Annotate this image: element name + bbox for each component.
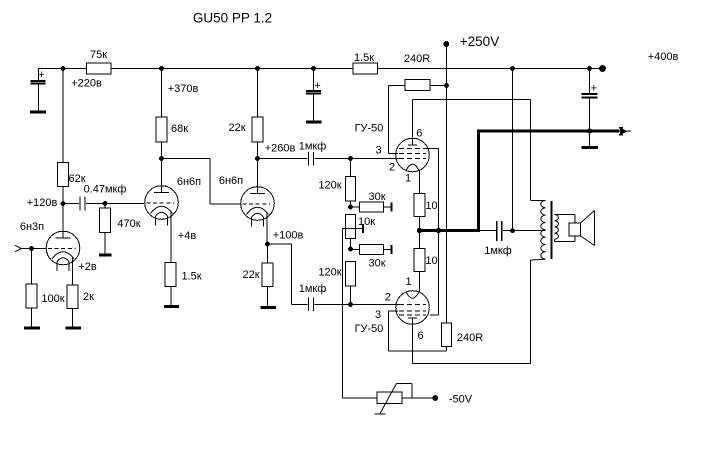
wire C7 to ground (589, 131, 591, 146)
wire between 10-ohm resistors (419, 217, 421, 249)
wire B+ rail (38, 68, 602, 70)
pentode V5 ГУ-50 (bottom, inverted) (396, 291, 430, 325)
wire cathode V4 (419, 170, 421, 193)
resistor R13 10k (trimmer) (346, 215, 356, 250)
wire cathode V1 (71, 266, 73, 285)
pentode V4 ГУ-50 (top) (396, 138, 430, 172)
svg-text:1: 1 (405, 173, 411, 185)
svg-text:+4в: +4в (178, 230, 197, 242)
svg-text:120к: 120к (318, 180, 341, 192)
node J (top grid node) (348, 156, 353, 161)
resistor R2 1.5k (353, 63, 378, 74)
resistor R11 120k (346, 159, 356, 208)
svg-text:6: 6 (417, 330, 423, 342)
ground (under 2k) (66, 326, 82, 329)
svg-text:GU50 PP 1.2: GU50 PP 1.2 (193, 11, 272, 26)
wire bias feed (wiper to varistor) (343, 229, 378, 399)
ground (under C1) (30, 110, 46, 113)
wire plate V5 to OPT primary bottom (413, 259, 546, 363)
node A (rail / 62k junction) (61, 66, 66, 71)
resistor R5 100k (26, 249, 37, 327)
wire cathode V3 (266, 222, 269, 264)
svg-text:6н6п: 6н6п (219, 175, 243, 187)
svg-text:3: 3 (375, 145, 381, 157)
capacitor C4 1мкф (top coupling) (258, 152, 351, 166)
svg-text:10к: 10к (358, 216, 375, 228)
capacitor C7 (output electrolytic) (582, 69, 598, 130)
svg-text:+370в: +370в (168, 83, 199, 95)
node M (bottom grid node) (348, 302, 353, 307)
svg-text:+120в: +120в (27, 197, 58, 209)
resistor R4 470k (100, 204, 111, 254)
wire secondary bottom to speaker (555, 236, 576, 242)
svg-text:22к: 22к (228, 122, 245, 134)
node F (input / 100k junction) (29, 246, 34, 251)
svg-text:30к: 30к (368, 191, 385, 203)
svg-text:6: 6 (416, 128, 422, 140)
svg-text:100к: 100к (41, 293, 64, 305)
node G (68k / plate V2 junction) (159, 156, 164, 161)
ground (under 1.5k) (164, 305, 179, 308)
svg-text:+400в: +400в (648, 51, 679, 63)
svg-text:+2в: +2в (78, 261, 97, 273)
node +400в terminal (599, 65, 606, 72)
resistor R14 30k (bottom) (351, 245, 392, 255)
node +250V terminal (443, 41, 449, 47)
svg-text:22к: 22к (242, 269, 259, 281)
input arrow (15, 245, 21, 251)
svg-text:240R: 240R (457, 332, 483, 344)
svg-text:+250V: +250V (460, 34, 499, 49)
wire cathode V5 (419, 272, 421, 292)
resistor R8 1.5k (165, 263, 176, 306)
capacitor C2 (electrolytic on rail) (306, 69, 321, 121)
wire R16 to +250V line (430, 85, 447, 87)
svg-text:10: 10 (425, 200, 437, 212)
wire plate V4 to OPT primary top (413, 100, 546, 201)
node C (rail / 22k junction) (255, 66, 260, 71)
svg-text:+: + (38, 69, 44, 81)
svg-text:+: + (591, 83, 597, 95)
resistor R12 30k (top) (351, 202, 392, 212)
resistor R9 22k (252, 69, 263, 159)
resistor R10 22k (cathode) (262, 263, 273, 306)
svg-text:-50V: -50V (449, 394, 473, 406)
ground (under cathode 22k) (261, 306, 277, 309)
wire 62k branch (62, 69, 64, 204)
wire suppressor V4 to common (426, 149, 439, 315)
wire plate V2 (161, 159, 163, 186)
node H (22k / plate V3 / C4 junction) (255, 156, 260, 161)
node L (10k / 30k / 120k junction) (348, 247, 353, 252)
resistor R16 240R (top) (405, 80, 430, 91)
svg-text:ГУ-50: ГУ-50 (355, 323, 384, 335)
svg-text:+260в: +260в (265, 143, 296, 155)
wire rail to center tap (512, 69, 514, 231)
node E (470k junction) (103, 201, 108, 206)
svg-text:2: 2 (389, 162, 395, 174)
svg-text:68к: 68к (171, 123, 188, 135)
wire cathode to lower coupling cap (268, 244, 308, 305)
resistor R19 240R (bottom) (442, 323, 452, 347)
wire cathode V2 (170, 221, 172, 263)
svg-text:0.47мкф: 0.47мкф (84, 184, 127, 196)
wire secondary top to speaker (555, 215, 576, 224)
node O (10-ohm midpoint) (417, 228, 422, 233)
node Q (center tap junction) (510, 228, 515, 233)
transformer T1 primary (541, 201, 546, 260)
arrow (common output) (619, 127, 631, 135)
svg-text:3: 3 (375, 309, 381, 321)
resistor R15 120k (346, 262, 356, 305)
svg-text:1мкф: 1мкф (299, 141, 327, 153)
wire plate V3 (257, 159, 259, 188)
svg-text:10: 10 (425, 255, 437, 267)
svg-text:+100в: +100в (273, 230, 304, 242)
varistor RU1 (375, 384, 433, 415)
wire grid V1 to first stage (105, 203, 144, 205)
node I (+100в cathode junction) (265, 242, 270, 247)
ground (under 470k) (99, 253, 112, 256)
svg-text:ГУ-50: ГУ-50 (355, 123, 384, 135)
svg-text:2: 2 (385, 292, 391, 304)
transformer T1 core (551, 201, 553, 259)
svg-text:1: 1 (405, 276, 411, 288)
wire screen V5 (240R feed) (389, 311, 447, 351)
node P (suppressor bus junction) (436, 228, 441, 233)
wiper of R13 (343, 224, 364, 233)
svg-text:75к: 75к (90, 49, 107, 61)
wire center tap (513, 230, 546, 232)
wire input (21, 248, 46, 250)
transformer T1 secondary (555, 215, 559, 240)
node K (120k / 30k / 10k junction) (348, 205, 353, 210)
wire 68k junction to grid V3 (162, 159, 241, 205)
svg-text:1.5к: 1.5к (181, 271, 201, 283)
node R (rail / center tap feed) (510, 66, 515, 71)
svg-text:1.5к: 1.5к (354, 52, 374, 64)
svg-text:+220в: +220в (71, 78, 102, 90)
resistor R17 10 (top cathode) (414, 194, 425, 217)
resistor R1 75k (87, 63, 112, 74)
resistor R7 68k (156, 69, 167, 159)
resistor R3 62k (58, 163, 69, 187)
wire grid V5 (351, 304, 400, 306)
node +120в (61, 201, 66, 206)
svg-text:470к: 470к (117, 218, 140, 230)
capacitor C1 (input filter electrolytic) (31, 69, 46, 111)
resistor R6 2k (67, 285, 78, 327)
thick common bus (cathode to ground) (420, 131, 620, 232)
triode V2 6н6п (145, 186, 179, 226)
ground (under 100k) (24, 326, 40, 329)
node S (rail / C7 junction) (587, 66, 592, 71)
svg-text:30к: 30к (368, 258, 385, 270)
node T (bus / C7 junction) (587, 128, 592, 133)
triode V1 6н3п (46, 231, 80, 271)
triode V3 6н6п (241, 187, 275, 227)
svg-text:240R: 240R (404, 53, 430, 65)
svg-text:+: + (314, 80, 320, 92)
wire screen V4 (240R feed) (389, 86, 406, 154)
wire +250V feed line (446, 44, 448, 323)
capacitor C3 0.47мкф (63, 197, 105, 211)
resistor R18 10 (bottom cathode) (414, 249, 425, 272)
wire grid V4 (351, 158, 400, 160)
speaker LS1 (569, 211, 595, 246)
ground (under C2) (306, 120, 322, 123)
node -50V terminal (432, 395, 438, 401)
ground (main) (582, 146, 599, 149)
svg-text:120к: 120к (318, 267, 341, 279)
node B (rail / 68k junction) (159, 66, 164, 71)
svg-text:6н3п: 6н3п (20, 221, 44, 233)
node N (+250V / 240R junction) (444, 83, 449, 88)
svg-text:6н6п: 6н6п (177, 176, 201, 188)
svg-text:1мкф: 1мкф (299, 283, 327, 295)
wire plate V1 (62, 204, 64, 233)
capacitor C6 1мкф (cathode bypass) (480, 221, 513, 241)
node D (rail / C2 junction) (311, 66, 316, 71)
svg-text:1мкф: 1мкф (484, 245, 512, 257)
capacitor C5 1мкф (bottom coupling) (309, 298, 351, 312)
svg-text:2к: 2к (83, 291, 94, 303)
